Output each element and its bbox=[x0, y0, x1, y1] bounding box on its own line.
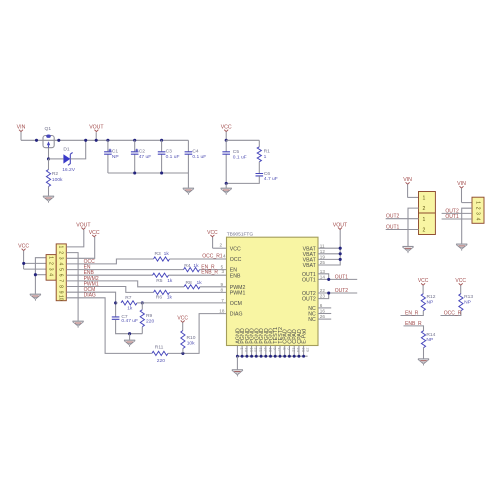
svg-text:16.2V: 16.2V bbox=[62, 167, 76, 173]
junction VBAT 12 bbox=[339, 252, 342, 255]
svg-text:1: 1 bbox=[474, 201, 480, 204]
value 1k (R8) bbox=[197, 280, 203, 286]
junction pins1/4 gnd bbox=[34, 273, 37, 276]
junction OCM node (R7/C7) bbox=[114, 301, 117, 304]
svg-text:OCC: OCC bbox=[230, 257, 242, 263]
svg-text:12: 12 bbox=[320, 249, 326, 254]
svg-text:VIN: VIN bbox=[457, 181, 466, 187]
svg-text:VCC: VCC bbox=[177, 315, 188, 321]
svg-text:0.1 uF: 0.1 uF bbox=[233, 155, 247, 161]
junction C5 bottom bbox=[225, 182, 228, 185]
wire R10 bottom bbox=[182, 349, 184, 354]
node VOUT (supply, header pin1) bbox=[76, 222, 91, 229]
wire R1 to C6 bbox=[258, 162, 260, 174]
wire net OUT2 (motor connector) bbox=[442, 212, 472, 214]
svg-text:1: 1 bbox=[57, 246, 63, 249]
svg-text:VCC: VCC bbox=[18, 244, 29, 250]
wire R13 to OCC_R bbox=[441, 311, 461, 316]
node VOUT (supply) bbox=[89, 125, 104, 132]
resistor R12 bbox=[421, 294, 425, 311]
resistor R5 bbox=[153, 273, 169, 277]
svg-text:OUT1: OUT1 bbox=[445, 214, 459, 220]
svg-text:Q1: Q1 bbox=[45, 126, 52, 132]
capacitor C3 bbox=[158, 152, 166, 154]
svg-text:OCC_R1: OCC_R1 bbox=[202, 254, 223, 260]
wire VIN to power connector pin1 bbox=[407, 196, 418, 198]
pin numbers 6 16 26 bbox=[320, 303, 326, 319]
connector X2 (10-pin header) bbox=[56, 244, 66, 301]
svg-text:10k: 10k bbox=[187, 340, 195, 346]
svg-text:4: 4 bbox=[223, 254, 226, 259]
resistor R4 bbox=[184, 268, 200, 272]
value 220 (R9) bbox=[146, 319, 154, 325]
wire R11 to IC pin 18 bbox=[168, 314, 227, 354]
svg-text:NP: NP bbox=[426, 337, 433, 343]
svg-text:16: 16 bbox=[320, 309, 326, 314]
svg-text:R8: R8 bbox=[186, 280, 193, 286]
svg-text:OUT1: OUT1 bbox=[335, 274, 349, 280]
pin numbers 22 23 bbox=[320, 288, 326, 299]
IC bottom pin stubs and numbers bbox=[237, 346, 310, 357]
label C2 bbox=[139, 148, 146, 154]
wire net ENB bbox=[66, 274, 152, 276]
resistor R1 bbox=[257, 147, 261, 162]
node VCC (supply, top) bbox=[221, 125, 232, 141]
junction OUT2 bbox=[327, 291, 330, 294]
svg-text:C4: C4 bbox=[192, 148, 199, 154]
svg-text:4.7 uF: 4.7 uF bbox=[264, 176, 278, 182]
wire R7 to IC pin 7 bbox=[137, 302, 227, 304]
capacitor C2 bbox=[131, 149, 139, 155]
IC bottom pin names bbox=[235, 327, 307, 344]
svg-text:4: 4 bbox=[57, 263, 63, 266]
label C5 bbox=[233, 149, 240, 155]
svg-text:VBAT: VBAT bbox=[303, 263, 317, 269]
svg-text:19: 19 bbox=[320, 255, 326, 260]
wire C1 leads bbox=[107, 140, 109, 152]
connector X4 (4-pin) bbox=[472, 197, 484, 223]
svg-text:11: 11 bbox=[320, 243, 325, 248]
svg-text:OCM: OCM bbox=[230, 301, 242, 307]
wire net PWM1 bbox=[66, 287, 153, 293]
svg-text:1: 1 bbox=[264, 154, 267, 160]
wire C4 leads bbox=[187, 140, 189, 152]
ground below capacitor bank bbox=[183, 188, 194, 195]
junctions IC ground rail bbox=[236, 355, 305, 358]
value NP (R12) bbox=[427, 300, 434, 306]
junction D1 cathode on rail bbox=[84, 139, 87, 142]
svg-text:8: 8 bbox=[221, 287, 224, 292]
svg-text:C2: C2 bbox=[139, 148, 146, 154]
junction on rail at Q1 drain bbox=[57, 139, 60, 142]
label net OCC_R (pull-up) bbox=[444, 310, 462, 316]
wire R12 to EN_R bbox=[401, 311, 424, 316]
svg-text:R3: R3 bbox=[155, 251, 162, 257]
svg-text:DIAG: DIAG bbox=[84, 293, 96, 299]
svg-text:ENB: ENB bbox=[230, 273, 241, 279]
node VCC (supply, R10) bbox=[177, 315, 188, 330]
svg-text:OUT1: OUT1 bbox=[386, 224, 400, 230]
label net OCC_R1 bbox=[202, 254, 223, 260]
label net PWM2 bbox=[84, 276, 99, 282]
label R13 bbox=[464, 294, 473, 300]
label R7 bbox=[125, 295, 132, 301]
label TB9051FTG bbox=[227, 232, 254, 238]
wire capacitor bottom rail bbox=[108, 172, 188, 174]
svg-text:220: 220 bbox=[146, 319, 154, 325]
resistor R8 bbox=[184, 285, 200, 289]
value 16.2V bbox=[62, 167, 76, 173]
op-amp U1 body (TB9051FTG motor driver) bbox=[227, 237, 319, 345]
svg-text:R14: R14 bbox=[426, 332, 435, 338]
capacitor C5 bbox=[222, 152, 230, 154]
svg-text:C3: C3 bbox=[166, 148, 173, 154]
svg-text:5: 5 bbox=[57, 268, 63, 271]
value 100k bbox=[52, 177, 63, 183]
wire net OCM bbox=[66, 292, 115, 317]
svg-text:VOUT: VOUT bbox=[89, 125, 104, 131]
pin number 3 bbox=[222, 269, 225, 274]
label net ENB bbox=[84, 270, 95, 276]
capacitor C4 bbox=[185, 152, 193, 154]
label net ENB_R bbox=[201, 270, 218, 276]
svg-text:7: 7 bbox=[221, 298, 224, 303]
value NP (R13) bbox=[464, 300, 471, 306]
svg-text:R9: R9 bbox=[146, 313, 153, 319]
wire OUT1 pin 13 jog bbox=[318, 274, 329, 280]
label R8 bbox=[186, 280, 193, 286]
wire motor connector pin2 to ground bbox=[462, 208, 472, 244]
wire C3 leads bbox=[161, 140, 163, 152]
pin numbers 11 12 19 25 bbox=[320, 243, 326, 265]
svg-text:R6: R6 bbox=[156, 294, 163, 300]
label net EN bbox=[84, 264, 91, 270]
svg-text:2: 2 bbox=[422, 228, 425, 234]
value 0.1 uF bbox=[233, 155, 247, 161]
node VCC (supply, IC pin2) bbox=[207, 230, 218, 237]
svg-text:100k: 100k bbox=[52, 177, 63, 183]
svg-text:1k: 1k bbox=[164, 251, 170, 257]
svg-text:6: 6 bbox=[57, 274, 63, 277]
label C3 bbox=[166, 148, 173, 154]
label net DIAG bbox=[84, 293, 96, 299]
label C4 bbox=[192, 148, 199, 154]
svg-text:VCC: VCC bbox=[221, 125, 232, 131]
svg-text:OUT2: OUT2 bbox=[335, 288, 349, 294]
svg-text:2: 2 bbox=[57, 251, 63, 254]
resistor R3 bbox=[154, 257, 170, 261]
value 0.47 uF bbox=[121, 318, 138, 324]
ground below C7/R9 bbox=[124, 340, 135, 347]
wire net ENB_R to IC pin 3 bbox=[169, 274, 227, 276]
svg-text:C1: C1 bbox=[112, 148, 119, 154]
label net OUT2 (power connector) bbox=[386, 214, 400, 220]
label net OCM bbox=[84, 287, 96, 293]
wire R6 to IC pin 8 bbox=[170, 291, 227, 293]
node VCC (supply, left header) bbox=[18, 244, 29, 270]
label net OUT1 (IC side) bbox=[335, 274, 349, 280]
node VCC (supply, header pin3) bbox=[89, 230, 100, 237]
pin number 4 bbox=[223, 254, 226, 259]
svg-text:9: 9 bbox=[57, 291, 63, 294]
svg-text:R4: R4 bbox=[184, 263, 191, 269]
wire D1 cathode up to rail bbox=[70, 140, 85, 159]
wire net OUT2 (to power connector) bbox=[386, 218, 419, 220]
transistor Q1 bbox=[43, 135, 54, 148]
label net OCC bbox=[84, 259, 96, 265]
value NP (R14) bbox=[426, 337, 433, 343]
label R5 bbox=[156, 278, 163, 284]
label C6 bbox=[264, 171, 271, 177]
node VIN (supply, 4-pin motor connector) bbox=[457, 181, 466, 203]
label R4 bbox=[184, 263, 191, 269]
svg-text:VCC: VCC bbox=[418, 278, 429, 284]
svg-text:1k: 1k bbox=[127, 305, 133, 311]
label R3 bbox=[155, 251, 162, 257]
svg-text:3: 3 bbox=[57, 257, 63, 260]
svg-text:1: 1 bbox=[422, 217, 425, 223]
junction C2 bottom bbox=[133, 171, 136, 174]
svg-text:14: 14 bbox=[320, 275, 326, 280]
svg-text:25: 25 bbox=[320, 260, 326, 265]
svg-text:PWM1: PWM1 bbox=[230, 291, 246, 297]
svg-text:NC: NC bbox=[308, 317, 316, 323]
svg-text:1k: 1k bbox=[197, 280, 203, 286]
junction R7/R9 node bbox=[141, 301, 144, 304]
value 1k (R5) bbox=[167, 278, 173, 284]
wire header pin2 to VCC bbox=[24, 262, 46, 264]
svg-text:TB9051FTG: TB9051FTG bbox=[227, 232, 254, 238]
label net EN_R bbox=[201, 265, 215, 271]
svg-text:R2: R2 bbox=[52, 171, 59, 177]
svg-text:2: 2 bbox=[422, 206, 425, 212]
pin number 5 bbox=[221, 265, 224, 270]
value 47 uF bbox=[139, 154, 152, 160]
svg-text:1: 1 bbox=[47, 256, 53, 259]
svg-text:2: 2 bbox=[47, 262, 53, 265]
resistor R2 bbox=[48, 159, 50, 170]
svg-text:0.47 uF: 0.47 uF bbox=[121, 318, 138, 324]
value 1k (R6) bbox=[167, 294, 173, 300]
pin numbers 13 14 bbox=[320, 269, 326, 280]
pin number 18 bbox=[219, 309, 225, 314]
wire VBAT pins to VOUT bbox=[318, 247, 340, 249]
ground below IC bbox=[232, 370, 243, 377]
svg-text:NP: NP bbox=[112, 154, 119, 160]
wire C6 bottom / VCC bottom rail bbox=[226, 176, 259, 183]
svg-text:18: 18 bbox=[219, 309, 225, 314]
wire VCC top rail bbox=[226, 139, 259, 141]
label R10 bbox=[187, 335, 196, 341]
wire C7 bottom rail bbox=[116, 320, 143, 334]
svg-text:29: 29 bbox=[306, 348, 311, 353]
value 4.7 uF bbox=[264, 176, 278, 182]
wire to ground from cap rail bbox=[187, 173, 189, 188]
svg-text:1k: 1k bbox=[167, 294, 173, 300]
svg-text:OUT1: OUT1 bbox=[302, 278, 316, 284]
svg-text:4: 4 bbox=[47, 273, 53, 276]
value 1k (R3) bbox=[164, 251, 170, 257]
wire header pin2 to ground bbox=[66, 253, 78, 321]
junction VCC header bbox=[22, 262, 25, 265]
node VIN (supply, power connector) bbox=[403, 177, 412, 197]
svg-text:1: 1 bbox=[422, 196, 425, 202]
label R12 bbox=[427, 294, 436, 300]
node VOUT (supply, VBAT) bbox=[333, 222, 348, 229]
svg-text:0.1 uF: 0.1 uF bbox=[166, 154, 180, 160]
wire net EN_R to IC pin 5 bbox=[200, 269, 227, 271]
ground below 4-pin header bbox=[30, 294, 41, 301]
wire OCM node to R7 bbox=[116, 302, 118, 304]
node VCC (supply, R13) bbox=[455, 278, 466, 294]
svg-text:DIAG: DIAG bbox=[230, 312, 243, 318]
wire header pin1 to ground bbox=[35, 258, 46, 294]
svg-text:VCC: VCC bbox=[207, 230, 218, 236]
wire net PWM2 bbox=[66, 281, 184, 287]
svg-text:R1: R1 bbox=[264, 149, 271, 155]
resistor R10 bbox=[181, 331, 185, 349]
wire ENB_R to R14 bbox=[404, 326, 424, 331]
label R14 bbox=[426, 332, 435, 338]
svg-text:R10: R10 bbox=[187, 335, 196, 341]
svg-text:E-Pad: E-Pad bbox=[302, 329, 308, 344]
svg-text:8: 8 bbox=[57, 285, 63, 288]
svg-text:VOUT: VOUT bbox=[333, 222, 348, 228]
label D1 bbox=[63, 147, 70, 153]
wire OUT2 pin 23 jog bbox=[318, 293, 329, 299]
connector X3 (power terminal block 2x2) bbox=[419, 192, 436, 235]
junction ground tap C7/R9 rail bbox=[128, 332, 131, 335]
node A junction (gate/D1/R2) bbox=[47, 157, 50, 160]
svg-text:R5: R5 bbox=[156, 278, 163, 284]
wire VIN/VOUT rail bbox=[21, 139, 188, 141]
svg-text:D1: D1 bbox=[63, 147, 70, 153]
wire power connector pin2 to ground bbox=[408, 208, 419, 246]
wire R1 top lead bbox=[258, 140, 260, 147]
label R11 bbox=[155, 345, 164, 351]
wire header pin1 to VOUT bbox=[66, 230, 84, 247]
label net ENB_R (pull-down) bbox=[405, 321, 422, 327]
pin number 8 bbox=[221, 287, 224, 292]
label Q1 bbox=[45, 126, 52, 132]
svg-text:VCC: VCC bbox=[230, 246, 241, 252]
svg-text:9: 9 bbox=[221, 282, 224, 287]
svg-text:10: 10 bbox=[57, 295, 63, 301]
node VCC (supply, R12) bbox=[418, 278, 429, 294]
svg-text:R11: R11 bbox=[155, 345, 164, 351]
value 1k (R4) bbox=[193, 263, 199, 269]
junction C1 top bbox=[106, 139, 109, 142]
svg-text:2: 2 bbox=[474, 207, 480, 210]
diode D1 (zener) bbox=[63, 153, 72, 166]
junction VBAT 19 bbox=[339, 258, 342, 261]
svg-text:OUT2: OUT2 bbox=[302, 297, 316, 303]
svg-text:OUT2: OUT2 bbox=[386, 214, 400, 220]
svg-text:1k: 1k bbox=[167, 278, 173, 284]
svg-text:OCC_R: OCC_R bbox=[444, 310, 462, 316]
wire net DIAG bbox=[66, 298, 152, 354]
junction VCC rail top bbox=[225, 139, 228, 142]
svg-text:VIN: VIN bbox=[17, 125, 26, 131]
svg-text:EN_R: EN_R bbox=[405, 310, 419, 316]
label net OUT2 (motor connector) bbox=[445, 208, 459, 214]
svg-text:R7: R7 bbox=[125, 295, 132, 301]
wire to ground from VCC rail bbox=[225, 183, 227, 188]
svg-text:3: 3 bbox=[474, 212, 480, 215]
value NP bbox=[112, 154, 119, 160]
svg-text:22: 22 bbox=[320, 288, 326, 293]
wire R8 to IC pin 9 bbox=[200, 286, 227, 288]
wire net OCC_R to IC pin 4 bbox=[170, 258, 227, 260]
svg-text:R13: R13 bbox=[464, 294, 473, 300]
svg-text:26: 26 bbox=[320, 314, 326, 319]
svg-text:NP: NP bbox=[427, 300, 434, 306]
pin number 7 bbox=[221, 298, 224, 303]
svg-text:VOUT: VOUT bbox=[76, 222, 91, 228]
svg-text:6: 6 bbox=[320, 303, 323, 308]
wire header pin3 to VCC bbox=[24, 268, 46, 270]
svg-text:7: 7 bbox=[57, 279, 63, 282]
capacitor C7 bbox=[112, 317, 120, 319]
resistor R6 bbox=[154, 290, 170, 294]
svg-text:VIN: VIN bbox=[403, 177, 412, 183]
wire net OUT1 (motor connector) bbox=[442, 218, 472, 220]
svg-text:23: 23 bbox=[320, 294, 326, 299]
label C1 bbox=[112, 148, 119, 154]
wire net OUT1 (IC side) bbox=[318, 278, 357, 280]
ground below R2 bbox=[43, 196, 54, 203]
connector X1 (4-pin header) bbox=[46, 255, 56, 281]
wire IC ground rail bbox=[237, 355, 307, 357]
junction on rail at Q1 source bbox=[35, 139, 38, 142]
svg-text:2: 2 bbox=[220, 243, 223, 248]
ground below motor connector bbox=[456, 244, 467, 251]
value 220 (R11) bbox=[157, 358, 165, 364]
junction C3 bottom bbox=[160, 171, 163, 174]
wire D1 anode bbox=[49, 158, 64, 160]
label net PWM1 bbox=[84, 281, 99, 287]
wire net OCC bbox=[66, 259, 153, 264]
value 0.1 uF bbox=[192, 154, 206, 160]
junction C2 top bbox=[133, 139, 136, 142]
wire R9 bottom bbox=[141, 327, 143, 334]
value 1k (R7) bbox=[127, 305, 133, 311]
label net OUT2 (IC side) bbox=[335, 288, 349, 294]
svg-text:0.1 uF: 0.1 uF bbox=[192, 154, 206, 160]
svg-text:NP: NP bbox=[464, 300, 471, 306]
svg-text:ENB_R: ENB_R bbox=[201, 270, 218, 276]
wire IC VCC pin 2 to VCC supply bbox=[213, 247, 227, 249]
pin number 9 bbox=[221, 282, 224, 287]
wire to ground C7/R9 bbox=[129, 334, 131, 340]
svg-text:C5: C5 bbox=[233, 149, 240, 155]
junction OUT1 bbox=[327, 278, 330, 281]
wire VIN to motor connector pin1 bbox=[462, 202, 472, 204]
IC left pin names bbox=[230, 246, 246, 317]
svg-text:47 uF: 47 uF bbox=[139, 154, 152, 160]
resistor R11 bbox=[152, 351, 168, 355]
junction VOUT on rail bbox=[95, 139, 98, 142]
svg-text:1k: 1k bbox=[193, 263, 199, 269]
label R2 bbox=[52, 171, 59, 177]
resistor R9 bbox=[141, 303, 143, 310]
ground below header pin2 bbox=[73, 321, 84, 328]
wire net OUT2 (IC side) bbox=[318, 292, 357, 294]
wire C2 leads bbox=[134, 140, 136, 152]
value 0.1 uF bbox=[166, 154, 180, 160]
label R1 bbox=[264, 149, 271, 155]
junction VBAT 11 bbox=[339, 247, 342, 250]
